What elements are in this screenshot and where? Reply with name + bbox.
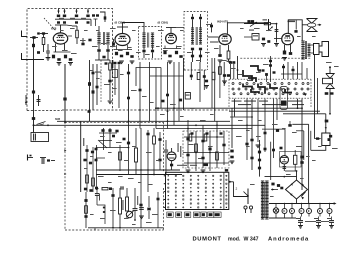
wire v247 W89: [246, 99, 248, 160]
cap C62 C63: [95, 148, 98, 151]
wire v drop a W65: [234, 99, 236, 117]
cap C27 C31: [199, 48, 202, 51]
wire v233 W50: [233, 64, 235, 79]
T2 cap C20 C24: [142, 50, 145, 53]
label 100 T11: [95, 72, 101, 73]
T2 core W16: [147, 33, 149, 48]
wire v302 long W98: [301, 114, 303, 190]
wire h23 W28: [244, 23, 269, 25]
wire W13: [94, 18, 98, 20]
pot circle R31: [126, 211, 132, 217]
blob below eye C72: [170, 164, 173, 167]
wire v252 W88: [251, 99, 253, 170]
resistor R23 R20: [86, 175, 89, 183]
cap C26 C30: [191, 48, 194, 51]
label T23: [327, 218, 331, 219]
column 259 W152: [259, 140, 261, 177]
row186 cap C76 C76: [120, 187, 124, 188]
tuning gang section arrow A2: [64, 9, 66, 14]
wire h131 stub W104: [296, 130, 304, 132]
wire v7 leads W149: [283, 164, 285, 171]
dashed screen line SH7: [100, 60, 102, 102]
wire h125 right W132: [188, 124, 265, 126]
cap C44 C58: [230, 150, 233, 153]
cap C50 C42: [205, 80, 208, 83]
wire W22: [192, 14, 194, 17]
junction vert W27: [268, 19, 270, 31]
AVC column c W70: [96, 64, 98, 105]
wire W72: [111, 60, 113, 68]
vert label T14: [83, 138, 84, 146]
wire tweeter2 down W40: [329, 89, 331, 114]
trimmer C25 C29: [199, 17, 202, 19]
wire V4 left drop W25: [211, 23, 213, 33]
resistor R8 R8: [175, 51, 178, 54]
svg-text:2: 2: [236, 187, 238, 191]
diode arrow D1: [303, 92, 307, 96]
svg-text:Andromeda: Andromeda: [268, 236, 309, 242]
wire v297t W56: [297, 62, 299, 79]
tube heater V10: [299, 209, 304, 214]
wire v237 W51: [237, 56, 239, 79]
long v 174 W80: [173, 62, 175, 125]
wire v230 W49: [230, 64, 232, 79]
svg-text:(6 CB6): (6 CB6): [158, 21, 169, 25]
long v 167 W79: [167, 62, 169, 129]
wire W17: [143, 26, 145, 33]
wire bus h2 W61: [229, 110, 320, 112]
wire v148 W116: [147, 130, 149, 192]
capacitor C4 C4: [46, 51, 50, 52]
diode D1 D2: [272, 188, 275, 190]
diag arrow A5: [250, 22, 257, 27]
label T21: [296, 218, 300, 219]
wire cathode V1 W5: [55, 44, 57, 53]
electrolytic C71 C78: [133, 208, 138, 209]
cap C61 C62: [91, 151, 94, 154]
V5 cathode cap C35 C40: [289, 52, 292, 55]
blob extra C73: [191, 132, 194, 134]
wire v141b W137: [140, 192, 142, 228]
transformer core W143: [264, 182, 266, 218]
svg-text:mod.: mod.: [228, 236, 241, 242]
ground G6: [168, 60, 173, 62]
mains switch SW19: [244, 192, 249, 197]
capacitor C11 C15: [81, 43, 84, 46]
wire spk down W37: [314, 55, 316, 139]
wire h237 W29: [271, 23, 277, 25]
wire v285m W95: [284, 129, 286, 156]
wire v drop c W67: [301, 99, 303, 114]
wire v224b W128: [223, 131, 225, 165]
coupling capacitor C3 C3: [42, 32, 45, 34]
output transformer secondary L11: [308, 43, 311, 45]
wire v232 W87: [231, 108, 233, 148]
wire v128b W114: [128, 129, 130, 175]
svg-text:6X8: 6X8: [51, 27, 57, 31]
small box AF R11: [252, 34, 259, 41]
wire W20: [163, 48, 181, 50]
V3 cathode resistor R7 R7: [163, 51, 166, 54]
wire bridge top W144: [296, 171, 298, 180]
wire h140b W118: [99, 140, 112, 142]
cap C65 C66: [95, 159, 98, 162]
resistor R31 R26: [204, 134, 207, 141]
wire v120 W113: [119, 145, 121, 171]
wire spk down b W38: [317, 78, 319, 114]
shield box bottom dashed extension SH2: [62, 109, 230, 111]
capacitor C15 C19: [102, 56, 105, 59]
wire v309 long W103: [308, 124, 310, 203]
cap C53 C45: [229, 61, 232, 64]
resistor R29 R30: [126, 197, 129, 211]
wire v273m W93: [273, 99, 275, 158]
cap C54 C46: [232, 61, 235, 64]
wire v200 W43: [199, 62, 201, 102]
grid resistor R3 R3: [64, 55, 67, 59]
piano key buttons SW18: [167, 212, 173, 217]
T2 cap C21 C25: [151, 50, 154, 53]
vert label 10000 T19: [122, 200, 123, 210]
capacitor C23 C27: [179, 55, 182, 58]
tube heater V9: [290, 209, 295, 214]
wire v277 W94: [276, 99, 278, 120]
cap C29 C33: [199, 55, 202, 58]
trimmer capacitor C12: [87, 21, 90, 23]
cap C56 C48: [265, 73, 268, 76]
ground G3: [68, 62, 73, 64]
cap C48 C81: [271, 183, 274, 186]
tube heater V13: [327, 209, 332, 214]
coil pack shield (dashed) SH4: [184, 12, 208, 71]
wires v W71: [114, 65, 116, 96]
diag wire W112: [98, 140, 107, 148]
switch S2 contact a SW13: [27, 155, 29, 161]
blob row top C70: [101, 129, 104, 132]
V2 cathode parts R5 R5: [115, 52, 118, 55]
output transformer core W35: [304, 41, 306, 59]
cap C70 C77: [95, 193, 99, 194]
wire v270 W52: [270, 56, 272, 82]
padder capacitor C5: [57, 15, 60, 18]
column86 R28: [85, 192, 87, 228]
keyboard switch matrix frame SW16: [166, 172, 229, 209]
wire h170 W121: [96, 169, 180, 171]
tube V6 magic eye V6: [167, 152, 176, 161]
junction N1: [301, 107, 303, 109]
wire box bottom W102: [311, 146, 326, 151]
long v 140 W75: [139, 62, 141, 129]
label M31 T6: [249, 30, 254, 31]
cap C30 C35: [247, 20, 250, 23]
bottom bus W139: [88, 227, 164, 229]
switch trace s3 SW3: [248, 78, 256, 82]
wire v drop b W66: [297, 99, 299, 109]
wire v325 into box W63: [325, 114, 327, 133]
tweeter speaker 1 SP1: [307, 19, 318, 24]
row186 resistor R33 R27: [102, 188, 108, 190]
wire v191 W42: [190, 62, 192, 80]
T1 tuning cap C13 C17: [97, 49, 100, 52]
rect tube V7 V14: [280, 156, 288, 164]
switch trace SW9: [251, 89, 259, 94]
wire W32: [244, 36, 252, 38]
wire v307 W58: [306, 68, 308, 79]
wire h163 W131: [184, 162, 229, 164]
cap C64 C65: [89, 162, 92, 165]
coil L2 L4: [100, 12, 105, 22]
cap C73 C80: [139, 207, 144, 208]
power transformer secondary L14: [265, 180, 268, 182]
ground terminal J2: [22, 53, 28, 60]
junction N4: [251, 116, 253, 118]
resistor R26 R23: [135, 148, 138, 162]
mains plug J3: [244, 206, 247, 209]
long v 149 W76: [149, 62, 151, 121]
wire v80 W105: [80, 121, 82, 192]
tweeter speaker 2 SP4: [326, 74, 334, 79]
wire v103 W110: [103, 128, 105, 150]
wire W36: [311, 44, 314, 46]
heater bypass cap C84: [316, 220, 321, 221]
switch contact row SW5: [232, 88, 234, 90]
resistor R21 R14: [219, 67, 222, 75]
wire v270b W97: [270, 142, 272, 180]
switch matrix contacts SW17: [168, 175, 169, 176]
junction N10: [296, 170, 298, 172]
antenna coupling capacitor C1 C1: [32, 36, 35, 39]
switch trace s2 SW2: [250, 66, 258, 71]
capacitor C18 C22: [120, 55, 123, 58]
trimmer capacitor C10: [75, 21, 78, 23]
box R14 R18: [112, 70, 117, 78]
power transformer primary L13: [261, 180, 264, 182]
cap C49 C82: [277, 184, 280, 187]
cap C63 C64: [83, 159, 86, 162]
heater bus bottom W147: [269, 217, 296, 219]
tube heater V8: [282, 209, 287, 214]
tick W140: [94, 228, 96, 231]
cap C68 C69: [95, 187, 98, 190]
IF transformer T1 winding b L3: [106, 32, 109, 34]
tuning gang section arrow A4: [87, 9, 89, 14]
ground G9: [282, 57, 287, 59]
wire v203 W125: [202, 125, 204, 168]
coil pack winding b L9: [199, 27, 202, 29]
cap C33 C38: [262, 38, 265, 41]
resistor R27 R24: [153, 136, 156, 144]
wire W11: [98, 45, 100, 49]
cap C34 C39: [267, 40, 270, 43]
wire plate V1 W4: [60, 25, 62, 33]
wire gang bus W2: [55, 18, 91, 20]
wire bus h1 W60: [155, 107, 302, 109]
cap C37 C52: [105, 62, 108, 64]
junction N3: [64, 121, 66, 123]
cap C38 C53: [108, 80, 111, 83]
output transformer primary L10: [301, 40, 304, 42]
arrow out A7: [318, 24, 322, 26]
wire v283 W53: [283, 64, 285, 79]
coil pack winding a L8: [191, 27, 194, 29]
cap C67 C68: [89, 189, 92, 192]
resistor R1 R1: [42, 38, 45, 45]
resistor R25 R22: [119, 152, 122, 160]
bend box path W74: [136, 68, 161, 87]
wire V5 grid W34: [274, 38, 282, 40]
AVC arrow A8: [25, 95, 27, 105]
cathode resistor R2 R2: [52, 55, 55, 59]
shield box (dashed) RF tuner SH1: [27, 9, 113, 111]
resistor R30 R25: [189, 134, 192, 141]
wire v288 W54: [287, 62, 289, 79]
value labels texture T24: [52, 46, 57, 47]
speaker voice coil SP2: [314, 44, 320, 55]
wire v196 W124: [195, 131, 197, 171]
ground G10: [222, 80, 227, 82]
cap C74 C74: [179, 99, 182, 102]
ground G11: [108, 100, 113, 102]
wire matrix out W134: [229, 181, 234, 183]
ground G1: [46, 57, 51, 59]
V5 cathode resistor R12 R12: [283, 51, 286, 55]
V4 cathode blob C34: [218, 54, 221, 57]
wire W10: [98, 26, 100, 33]
pickup box R19: [322, 133, 330, 146]
wire h74 W59: [281, 73, 302, 75]
wire v217 W127: [216, 121, 218, 168]
wire bus h3 W62: [283, 113, 326, 115]
cap C66 C67: [84, 188, 87, 191]
wire v310 W100: [310, 131, 312, 151]
wire v113 W136: [112, 188, 114, 228]
wire W12: [98, 52, 100, 60]
pickup blob C60: [329, 135, 332, 138]
tuning gang section arrow A3: [76, 9, 78, 14]
heater bus top W146: [269, 203, 335, 205]
arrow into box A9: [325, 127, 327, 129]
capacitor C22 C26: [168, 55, 171, 58]
IF transformer T2 shield (dashed) SH3: [139, 27, 162, 60]
svg-text:IN34 6T8: IN34 6T8: [217, 20, 229, 24]
wire v204 W44: [203, 70, 205, 90]
wire v183 W41: [183, 58, 185, 110]
T2 winding a L6: [142, 32, 145, 34]
wire W1: [33, 55, 35, 60]
volume pot R32 R10: [264, 23, 270, 25]
tube heater V12: [318, 209, 323, 214]
wire v214 W46: [214, 58, 216, 121]
long v 161 W78: [160, 68, 162, 109]
switch trace SW10: [270, 84, 277, 90]
junction N9: [112, 227, 114, 229]
resistor R28 R29: [119, 198, 122, 214]
long v 65 W84: [64, 64, 66, 122]
ground G4: [119, 60, 124, 62]
wire W23: [192, 51, 194, 63]
long v 179 W81: [178, 62, 180, 121]
cap C69 C71: [164, 150, 168, 151]
pilot lamp V7: [273, 208, 278, 213]
wire v302t W57: [301, 62, 303, 79]
wire h128 right W133: [156, 128, 252, 130]
wire h137 W129: [184, 136, 224, 138]
junction N8: [216, 124, 218, 126]
pushbutton block SW12: [280, 87, 288, 110]
wire h133 W109: [99, 132, 117, 134]
wire W8: [68, 35, 72, 37]
heater bypass cap C85: [329, 220, 334, 221]
T1 tuning cap C14 C18: [106, 49, 109, 52]
cap C52 C44: [227, 74, 230, 77]
wire v141 W115: [140, 128, 142, 192]
capacitor C36 C41: [325, 92, 329, 95]
cap C58 C50: [273, 71, 276, 73]
wire h176 W150: [265, 176, 297, 178]
wire v158 W138: [157, 192, 159, 228]
band switch box (dashed) SH6: [229, 78, 311, 80]
wire h174 W122: [96, 174, 182, 176]
wire W18: [143, 53, 145, 59]
arrow HT out A12: [301, 192, 305, 197]
long v 128 W73: [128, 64, 130, 129]
speaker horn SP3: [319, 42, 329, 57]
wire v3038 W99: [303, 131, 305, 160]
wire h196b W141: [97, 190, 113, 192]
matrix top labels T16: [177, 165, 187, 166]
bridge rectifier D3: [286, 180, 308, 199]
switch S2 arm SW15: [47, 159, 50, 161]
heater bypass cap C83: [298, 220, 303, 221]
svg-text:W 347: W 347: [244, 236, 259, 242]
wire W6: [54, 51, 71, 53]
mains lead W142: [247, 189, 249, 205]
resistor R24 R21: [92, 178, 95, 186]
resistor R6 R6: [126, 52, 129, 55]
wire W15: [114, 49, 133, 51]
ground G7: [218, 59, 223, 61]
wire v110b W111: [109, 128, 111, 148]
wire V4 plate up W24: [227, 23, 268, 34]
wire h76 W82: [150, 75, 184, 77]
wire v210 W126: [209, 131, 211, 171]
bypass capacitor C9 C13: [57, 58, 60, 61]
wire W3: [90, 19, 92, 26]
tube V2 IF amplifier V2: [115, 34, 130, 46]
resistor R13 R17: [109, 63, 112, 70]
wire h147b W119: [96, 147, 129, 149]
trimmer capacitor C6: [57, 21, 60, 23]
switch label row 2 T10: [238, 104, 251, 105]
label 12AB5 T7: [288, 21, 296, 23]
heater loop rect W151: [280, 152, 302, 168]
cap C39 C54: [114, 62, 117, 64]
padder capacitor C11: [86, 15, 89, 18]
volume bus b W86: [57, 120, 230, 122]
junction dots mid N7: [157, 107, 159, 109]
long v 156 W77: [155, 68, 157, 129]
capacitor C12 C16: [88, 39, 91, 42]
switch label row 1 T9: [232, 101, 242, 102]
resistor R20 R13: [197, 73, 200, 80]
wire bridge bottom W145: [296, 199, 298, 204]
audio shield dashed box SH8: [65, 121, 164, 123]
wire v224 W48: [223, 62, 225, 86]
wire v160b W117: [159, 132, 161, 170]
V4 resistor R9 R9: [227, 51, 230, 59]
grid coil L3 L5: [112, 42, 115, 45]
wire V2 plate W14: [122, 27, 124, 34]
